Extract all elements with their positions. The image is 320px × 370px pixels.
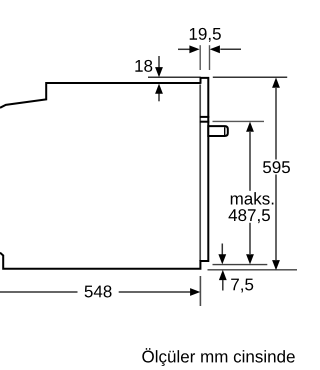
extension line: 19,5 right (door front plane)	[209, 45, 211, 70]
extension line y=121.4 (maks top level)	[213, 120, 265, 122]
dimension 548	[0, 291, 191, 293]
caption	[142, 348, 294, 366]
door handle	[208, 126, 228, 136]
front frame bottom bar	[200, 116, 209, 118]
door top bar	[200, 121, 209, 123]
oven body bottom + rear step + door bottom + door front	[0, 78, 208, 269]
dimension maks. 487,5	[249, 132, 251, 254]
dimension 19,5	[178, 48, 241, 50]
oven body top outline	[0, 83, 201, 108]
wire: cabinet front plane vertical	[199, 85, 201, 262]
dimension 595	[275, 88, 277, 260]
dimension 18	[158, 56, 160, 101]
extension line y=77.3 (frame top level, left and right)	[148, 76, 287, 78]
extension line: 19,5 left (cabinet front plane)	[199, 45, 201, 70]
extension line y=264.6 (appliance bottom level)	[213, 264, 268, 266]
handle cap line	[224, 127, 226, 135]
extension line: 548 right end vertical	[199, 276, 201, 306]
dimension 7,5	[221, 244, 223, 256]
extension line y=269.8 (niche floor level)	[208, 269, 298, 271]
